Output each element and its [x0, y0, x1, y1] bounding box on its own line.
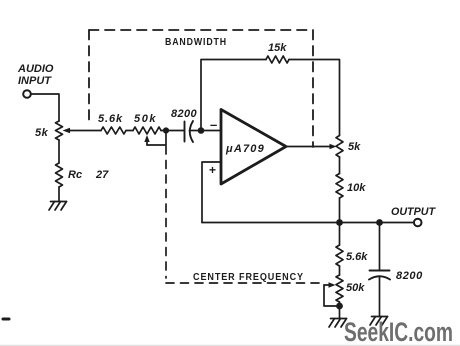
node output cap tap: [376, 219, 383, 226]
svg-text:50k: 50k: [134, 113, 157, 125]
wire cap to ground: [379, 277, 381, 317]
wire cap to op-amp minus: [190, 130, 222, 132]
ground below output cap: [370, 317, 388, 326]
svg-text:27: 27: [95, 169, 109, 181]
resistor 5.6k bottom: [336, 245, 343, 266]
wire plus input: [202, 162, 221, 223]
svg-text:5k: 5k: [35, 127, 49, 139]
svg-text:AUDIO: AUDIO: [17, 63, 54, 75]
svg-text:–: –: [210, 117, 217, 132]
wire output node down to 5.6k: [339, 223, 341, 246]
potentiometer 5k right body: [336, 136, 343, 158]
dashed box BANDWIDTH right edge: [312, 30, 314, 147]
wire plus feedback to output node: [202, 222, 340, 224]
dashed line CENTER FREQUENCY vertical: [165, 146, 167, 278]
svg-text:Rc: Rc: [68, 169, 82, 181]
wire 5.6k to 50k: [126, 130, 133, 132]
svg-text:INPUT: INPUT: [18, 75, 52, 87]
svg-text:+: +: [209, 163, 216, 177]
wire 50k to cap: [161, 130, 184, 132]
potentiometer 50k bottom body: [336, 275, 343, 302]
wiper arrow of series 50k pot: [144, 135, 149, 145]
node bottom wiper junction: [336, 303, 343, 310]
resistor 10k: [336, 174, 343, 199]
svg-text:5.6k: 5.6k: [346, 251, 368, 263]
wire to bottom ground: [339, 302, 341, 319]
wire feedback up from minus node: [201, 60, 266, 131]
svg-text:SeekIC.com: SeekIC.com: [344, 317, 453, 346]
op-amp U1 uA709: [221, 110, 286, 185]
wiper arrow of bottom 50k pot: [324, 282, 336, 287]
dashed box BANDWIDTH left edge: [88, 30, 90, 120]
capacitor 8200 series: [185, 121, 194, 142]
label AUDIO INPUT: [17, 63, 54, 87]
wire wiper to 5.6k: [70, 130, 101, 132]
wire op-amp output to 5k wiper arrow: [286, 144, 337, 149]
svg-text:50k: 50k: [346, 282, 365, 294]
resistor 5.6k series: [101, 127, 126, 134]
potentiometer 50k series body: [133, 127, 161, 134]
svg-text:OUTPUT: OUTPUT: [391, 206, 436, 218]
potentiometer 5k left body: [56, 121, 63, 140]
terminal AUDIO INPUT: [23, 90, 31, 98]
wire Rc to ground: [58, 187, 60, 202]
wire input terminal to pot top: [31, 94, 59, 121]
svg-text:15k: 15k: [268, 42, 287, 54]
wire 5k to 10k: [339, 157, 341, 174]
wiper tie wire of bottom 50k pot: [324, 285, 340, 306]
svg-text:5k: 5k: [348, 141, 361, 153]
svg-text:10k: 10k: [347, 182, 366, 194]
dashed box BANDWIDTH top edge: [89, 29, 313, 31]
node minus input: [198, 127, 205, 134]
node divider junction: [336, 219, 343, 226]
wiper arrow of 5k pot: [63, 128, 71, 133]
svg-text:BANDWIDTH: BANDWIDTH: [165, 37, 227, 48]
wire output line: [340, 222, 415, 224]
stray mark bottom left: [3, 318, 9, 321]
capacitor 8200 output: [369, 271, 390, 280]
faint bottom scan line: [0, 344, 460, 346]
resistor Rc 27: [56, 163, 63, 187]
wire 15k to right rail: [289, 60, 340, 136]
node wiper junction: [163, 127, 169, 133]
svg-text:8200: 8200: [171, 108, 198, 120]
wiper tie wire of series 50k pot: [147, 131, 166, 145]
svg-text:CENTER FREQUENCY: CENTER FREQUENCY: [193, 272, 304, 283]
resistor 15k feedback: [266, 56, 289, 63]
wire 5k pot to Rc: [58, 140, 60, 163]
ground below 50k: [329, 319, 347, 328]
wire 5.6k to 50k pot: [339, 266, 341, 275]
terminal OUTPUT: [414, 219, 422, 227]
ground below Rc: [49, 202, 67, 211]
wire 10k to output node: [339, 198, 341, 223]
svg-text:8200: 8200: [396, 270, 423, 282]
wire output tap down to cap: [379, 223, 381, 271]
svg-text:μA709: μA709: [225, 143, 265, 155]
svg-text:5.6k: 5.6k: [98, 113, 123, 125]
dashed line CENTER FREQUENCY horizontal: [166, 282, 321, 284]
